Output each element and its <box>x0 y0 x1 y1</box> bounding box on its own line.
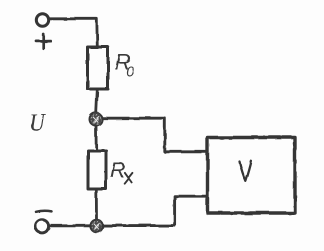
resistor Rx <box>88 151 106 190</box>
label Rx <box>110 158 126 182</box>
svg-text:0: 0 <box>126 65 134 81</box>
resistor R0 <box>88 47 109 89</box>
svg-text:U: U <box>29 109 47 137</box>
wire Rx to bottom node <box>95 189 98 220</box>
terminal T2 (-) <box>35 220 48 233</box>
wire from T1 to resistor R0 <box>49 19 98 48</box>
node (bottom junction) <box>90 220 102 232</box>
label R0 <box>115 49 135 80</box>
label U <box>29 109 47 137</box>
wire node U to resistor Rx <box>95 126 98 151</box>
minus sign <box>36 211 52 212</box>
wire bottom node to voltmeter (bottom lead) <box>103 196 208 225</box>
wire T2 to bottom node <box>49 224 91 227</box>
svg-text:R: R <box>110 158 126 182</box>
voltmeter V <box>208 138 296 214</box>
plus sign <box>37 35 52 49</box>
node U (junction) <box>90 113 103 126</box>
label V <box>240 161 252 181</box>
terminal T1 (+) <box>36 14 48 26</box>
wire node U to voltmeter (top lead) <box>102 118 207 152</box>
wire R0 to node U <box>96 89 97 113</box>
